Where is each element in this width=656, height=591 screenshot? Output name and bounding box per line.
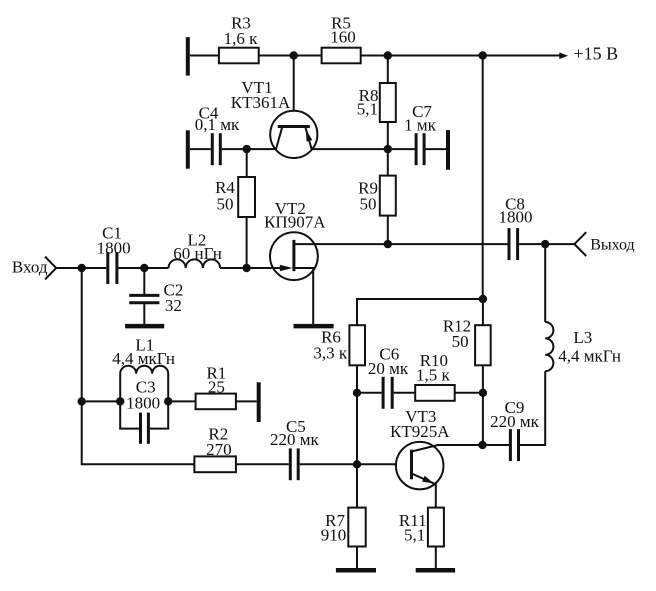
wire y299 horizontal (R6 top to R12 top node) [357, 299, 483, 325]
svg-text:5,1: 5,1 [404, 526, 425, 545]
wire C7 to chassis [426, 148, 446, 150]
transistor VT2 circle [270, 232, 318, 280]
ground bar under C2 [125, 324, 164, 329]
svg-text:КТ925А: КТ925А [390, 422, 450, 441]
VT3 collector leg [412, 445, 483, 452]
capacitor C7 [416, 133, 424, 165]
junction tank right [164, 397, 172, 405]
capacitor C5 [290, 448, 298, 480]
svg-text:1,5 к: 1,5 к [416, 366, 451, 385]
+15 V arrow head [559, 52, 568, 59]
chassis bar (left of C4) [186, 130, 190, 168]
wire R3 to R5 (+15 rail) [259, 55, 322, 57]
wire input chevron to C1 [56, 267, 106, 269]
svg-text:1800: 1800 [126, 394, 160, 413]
VT1 emitter arrow (PNP, into base) [306, 130, 313, 142]
VT1 emitter leg [306, 128, 312, 149]
svg-text:50: 50 [360, 195, 377, 214]
wire C6 node to C6 [357, 392, 382, 394]
wire C5 to VT3 base node [300, 463, 357, 465]
wire VT1 base lead (rail down to base bar) [293, 56, 295, 128]
resistor R3 [219, 48, 259, 64]
resistor R12 [475, 325, 491, 365]
wire R8 bottom to R9 top (through node) [387, 122, 389, 176]
wire chassis to C4 [190, 148, 211, 150]
junction C8/L3/output [541, 240, 549, 248]
svg-text:3,3 к: 3,3 к [313, 344, 348, 363]
input chevron [45, 257, 56, 280]
wire C2 top lead [143, 268, 145, 295]
wire R1 to chassis [236, 400, 257, 402]
inductor L1 (top of tank) [120, 366, 168, 429]
chassis bar (left of R3) [186, 37, 190, 76]
junction gate/R4 node [242, 264, 250, 272]
capacitor C9 [510, 429, 518, 461]
transistor VT3 circle [396, 442, 444, 490]
ground bar under VT2 source [294, 324, 334, 329]
junction R8/R9/C7/VT1 emitter [384, 145, 392, 153]
junction R6/C6 node [353, 389, 361, 397]
junction on rail at long vertical [479, 51, 487, 59]
capacitor C8 [509, 228, 518, 260]
svg-text:220 мк: 220 мк [490, 412, 540, 431]
junction C1/C2/L2 node [140, 264, 148, 272]
junction R10/R12 bottom node [479, 389, 487, 397]
ground bar under R11 [416, 568, 455, 573]
wire L3 bottom to C9 [520, 371, 545, 445]
resistor R10 [415, 385, 455, 401]
inductor L3 [545, 322, 553, 371]
resistor R2 [194, 456, 236, 472]
VT2 gate arrow [280, 265, 293, 272]
VT2 drain wire to C8 [294, 243, 508, 245]
wire R10 to R12 bottom node [455, 392, 483, 394]
svg-text:4,4 мкГн: 4,4 мкГн [558, 347, 621, 366]
resistor R7 [348, 508, 365, 547]
wire tank right to R1 [168, 400, 195, 402]
svg-text:50: 50 [217, 195, 234, 214]
wire R5 to +15V arrow [361, 55, 560, 57]
svg-text:60 нГн: 60 нГн [173, 244, 222, 263]
svg-text:910: 910 [321, 526, 347, 545]
resistor R8 [380, 83, 396, 122]
VT3 base bar [410, 450, 413, 480]
capacitor C1 [108, 252, 117, 284]
capacitor C6 [383, 377, 392, 409]
capacitor C2 [129, 295, 159, 302]
output chevron [574, 232, 586, 256]
svg-text:1,6 к: 1,6 к [224, 29, 259, 48]
wire C4 to VT1 collector [222, 148, 276, 150]
VT1 collector leg [276, 128, 282, 149]
wire R7 to ground [356, 547, 358, 571]
svg-text:160: 160 [330, 28, 356, 47]
VT3 emitter arrow (NPN, out of base) [422, 476, 433, 483]
junction on rail at VT1 base [290, 51, 298, 59]
wire C2 bottom lead [143, 303, 145, 326]
svg-text:25: 25 [208, 378, 225, 397]
inductor L2 [169, 259, 221, 268]
wire chassis to R3 [190, 55, 219, 57]
wire rail down to R8 [387, 56, 389, 84]
wire C9 to collector node [483, 444, 510, 446]
wire L2 to VT2 gate [220, 267, 283, 269]
wire VT1 emitter to C7 [312, 148, 415, 150]
svg-text:+15 В: +15 В [574, 44, 619, 64]
svg-text:4,4 мкГн: 4,4 мкГн [112, 349, 175, 368]
junction VT2 drain / R9 [384, 240, 392, 248]
wire R12 bottom to C9 node [482, 365, 484, 445]
wire C6 to R10 [394, 392, 416, 394]
VT3 emitter leg [412, 474, 436, 508]
wire R4 to VT2 gate node [246, 217, 248, 268]
wire input vertical down [82, 268, 195, 464]
svg-text:5,1: 5,1 [357, 100, 378, 119]
svg-text:1800: 1800 [499, 208, 533, 227]
chassis bar (right of C7) [446, 130, 450, 170]
svg-text:L3: L3 [573, 328, 592, 347]
capacitor C3 [141, 413, 149, 444]
junction R12 top node [479, 295, 487, 303]
wire tank bottom left to C3 [119, 428, 139, 430]
VT2 source stub [295, 268, 314, 326]
VT1 base bar [278, 125, 310, 128]
wire long vertical rail down to R12 node [482, 56, 484, 300]
svg-text:50: 50 [452, 332, 469, 351]
svg-text:Вход: Вход [12, 258, 48, 277]
junction on rail at R8 [384, 51, 392, 59]
wire R2 to C5 [236, 463, 289, 465]
junction input vertical / tank [78, 397, 86, 405]
resistor R1 [196, 394, 236, 410]
wire node down to R4 [246, 149, 248, 177]
wire R11 to ground [435, 547, 437, 571]
wire R12 top lead [482, 299, 484, 325]
junction C9/R12/VT3 collector [478, 441, 486, 449]
capacitor C4 [212, 133, 220, 165]
VT2 channel bar [292, 240, 295, 271]
resistor R4 [238, 177, 255, 217]
ground bar under R7 [336, 568, 376, 573]
wire C1 to L2 [118, 267, 168, 269]
svg-text:КТ361А: КТ361А [231, 93, 291, 112]
junction tank left [116, 397, 124, 405]
wire C3 to tank bottom right [150, 428, 169, 430]
resistor R5 [322, 48, 361, 64]
resistor R11 [428, 508, 444, 547]
wire R9 bottom to drain row [387, 216, 389, 245]
junction VT3 base node [353, 460, 361, 468]
junction input node [78, 264, 86, 272]
svg-text:20 мк: 20 мк [368, 359, 409, 378]
junction C4/R4/VT1 node [243, 145, 251, 153]
transistor VT1 circle [270, 111, 317, 158]
svg-text:220 мк: 220 мк [270, 430, 320, 449]
wire R6 bottom to C6 node [356, 365, 358, 393]
wire output node down to L3 [544, 244, 546, 322]
resistor R9 [380, 176, 396, 216]
svg-text:1800: 1800 [97, 239, 131, 258]
wire R7 column (C6 node down to R7) [356, 393, 358, 508]
resistor R6 [349, 325, 365, 365]
svg-text:270: 270 [206, 440, 232, 459]
svg-text:Выход: Выход [590, 237, 635, 254]
svg-text:КП907А: КП907А [264, 213, 326, 232]
wire C8 to output [519, 243, 574, 245]
svg-text:1 мк: 1 мк [404, 116, 437, 135]
svg-text:0,1 мк: 0,1 мк [195, 115, 240, 134]
svg-text:32: 32 [165, 296, 182, 315]
wire to tank left [82, 400, 121, 402]
wire base node to VT3 base bar [357, 463, 412, 465]
chassis bar (right of R1) [257, 382, 261, 422]
